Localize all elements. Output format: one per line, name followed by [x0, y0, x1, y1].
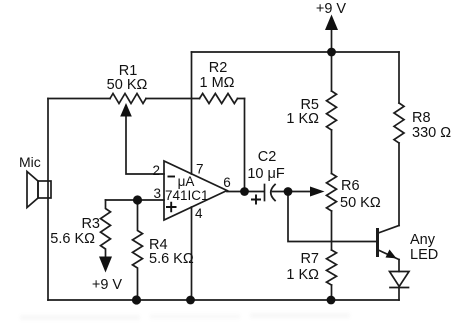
op-amp U1 741 triangle: [164, 161, 227, 220]
C2 plus sign: [251, 195, 261, 205]
faint scan artifact strip at bottom: [20, 313, 350, 320]
svg-text:R3: R3: [81, 216, 100, 232]
junction dot: R7 bottom rail: [327, 296, 336, 305]
svg-text:+9 V: +9 V: [316, 1, 347, 17]
wire: C2 to right node: [273, 191, 289, 193]
svg-text:R6: R6: [341, 178, 360, 194]
wire: R7 bottom lead: [331, 285, 333, 300]
resistor R2 1M: [200, 94, 238, 104]
svg-text:C2: C2: [258, 149, 277, 165]
wire: R8 bottom lead to collector: [398, 143, 400, 226]
wire: node down and right to transistor base: [288, 192, 376, 242]
svg-text:50 KΩ: 50 KΩ: [340, 195, 381, 211]
wire: R1/R2 horizontal line: [48, 98, 245, 100]
junction dot: R4 top / pin3: [133, 195, 142, 204]
svg-text:1 KΩ: 1 KΩ: [286, 267, 319, 283]
LED D1 cathode bar: [390, 287, 409, 289]
resistor R8 330 ohm: [394, 103, 404, 143]
wire: R6-R7 lead: [331, 211, 333, 250]
svg-text:6: 6: [223, 175, 231, 190]
svg-text:1 MΩ: 1 MΩ: [199, 75, 234, 91]
resistor R5 1K: [327, 91, 337, 130]
wire: LED to bottom rail: [398, 288, 400, 301]
svg-text:5.6 KΩ: 5.6 KΩ: [149, 251, 194, 267]
transistor Q1 base bar: [376, 230, 379, 256]
svg-text:4: 4: [195, 206, 203, 221]
junction dot: C2 right node: [284, 187, 293, 196]
capacitor C2 flat plate: [264, 185, 266, 201]
svg-text:μA: μA: [178, 174, 195, 189]
svg-text:2: 2: [152, 163, 160, 178]
resistor R6 50K pot: [327, 174, 337, 212]
svg-text:3: 3: [153, 186, 161, 201]
op-amp plus sign: [166, 202, 177, 212]
wire: R5 top lead from rail: [331, 52, 333, 91]
wire: R8 top lead: [398, 52, 400, 103]
wire: op-amp output to C2: [227, 191, 264, 193]
wire: pin 4 vertical to bottom rail: [191, 207, 193, 300]
wire: emitter down to LED: [398, 260, 400, 272]
svg-text:5.6 KΩ: 5.6 KΩ: [50, 231, 95, 247]
svg-text:741IC1: 741IC1: [165, 188, 209, 203]
resistor R1 50K pot: [110, 94, 146, 104]
svg-text:7: 7: [196, 162, 204, 177]
svg-text:R7: R7: [300, 251, 319, 267]
wire: R5-R6 lead: [331, 130, 333, 174]
+9V supply arrowhead (top): [325, 15, 338, 31]
svg-text:Any: Any: [410, 232, 436, 248]
op-amp minus sign: [168, 176, 176, 178]
junction dot: op-amp output / C2: [240, 187, 249, 196]
svg-text:330 Ω: 330 Ω: [412, 125, 451, 141]
svg-text:Mic: Mic: [19, 154, 41, 170]
svg-text:1 KΩ: 1 KΩ: [286, 111, 319, 127]
+9V arrowhead (down, below R3): [99, 257, 112, 273]
resistor R3 5.6K: [101, 200, 111, 257]
transistor emitter arrowhead: [386, 250, 397, 259]
wire: top +9V rail: [192, 51, 400, 53]
wire: pin 7 vertical from rail to op-amp: [191, 52, 193, 174]
LED D1 triangle: [390, 272, 410, 287]
mic speaker magnet box: [38, 181, 51, 198]
transistor Q1 emitter diagonal: [378, 250, 399, 260]
junction dot: pin4 bottom rail: [186, 296, 195, 305]
resistor R4 5.6K: [133, 200, 143, 300]
transistor Q1 collector diagonal: [378, 226, 399, 234]
wire: R6 wiper from node: [288, 191, 313, 193]
R1 pot wiper arrowhead: [120, 103, 132, 117]
svg-text:LED: LED: [410, 247, 438, 263]
svg-text:50 KΩ: 50 KΩ: [107, 77, 148, 93]
svg-text:+9 V: +9 V: [92, 277, 123, 293]
wire: R2 right end down to output node: [244, 99, 246, 192]
resistor R7 1K: [327, 250, 337, 285]
R6 pot wiper arrowhead: [310, 187, 325, 197]
junction dot: R4 bottom rail: [132, 295, 141, 304]
wire: pin 3 line from R3/R4 to op-amp: [106, 199, 165, 201]
wire: +9V arrow stem: [331, 27, 333, 52]
mic speaker cone: [27, 172, 38, 208]
svg-text:10 μF: 10 μF: [247, 166, 285, 182]
wire: bottom ground rail: [48, 299, 399, 301]
junction dot: +9V rail / R5: [327, 48, 336, 57]
wire: R1 wiper stem down and to pin 2: [126, 114, 164, 174]
svg-text:R2: R2: [209, 60, 228, 76]
capacitor C2 curved plate: [271, 185, 275, 201]
svg-text:R8: R8: [412, 110, 431, 126]
wire: left vertical (mic branch): [47, 99, 49, 301]
